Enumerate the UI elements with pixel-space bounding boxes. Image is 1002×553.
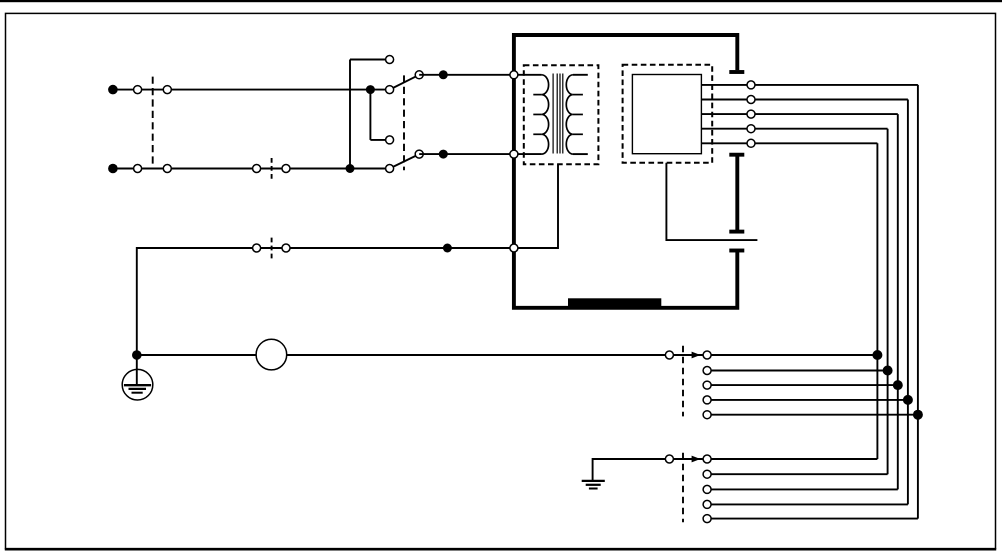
border frame bottom edge: [5, 548, 996, 551]
wire X5 pin 2 to bus 4: [707, 473, 888, 475]
switch S1 common terminal: [415, 71, 423, 79]
wire U1 pin 5: [701, 142, 877, 144]
junction bus1: [913, 410, 923, 420]
wire L1 row 1: [113, 89, 390, 91]
connector X3 separation dashed line: [271, 238, 273, 259]
connector X3 pin a: [253, 244, 261, 252]
signal ground bar 3: [589, 488, 598, 490]
wire X4 pin 2 to bus 4: [707, 370, 888, 372]
splice node on row 3: [443, 244, 452, 253]
wire bus vertical 4: [887, 129, 889, 475]
connector X2 pin a: [253, 165, 261, 173]
wire S2 common to enclosure pin 2: [419, 153, 514, 155]
ganged switch dashed link S1-S2: [403, 75, 405, 170]
terminal circle pin 5: [747, 139, 755, 147]
enclosure pin 2: [510, 150, 518, 158]
transformer T1 primary stub bottom: [514, 153, 542, 155]
connector X4 socket pin 2: [703, 367, 711, 375]
protective earth circle: [122, 369, 153, 400]
connector X1 pin 2a: [134, 165, 142, 173]
wire row 4 supply line: [137, 354, 878, 356]
switch S2 blade: [390, 154, 420, 168]
terminal circle pin 2: [747, 96, 755, 104]
connector X1 pin 1a: [134, 86, 142, 94]
connector X1 pin 2b: [163, 165, 171, 173]
wire U1 pin 1: [701, 84, 918, 86]
switch S1 blade: [390, 75, 420, 90]
node L2 start: [108, 164, 118, 174]
enclosure pin 3: [510, 244, 518, 252]
wire stub to switch S1 lower throw: [370, 139, 389, 141]
connector X5 socket pin 1: [703, 455, 711, 463]
transformer T1 secondary stub top: [573, 74, 588, 76]
junction bus3: [893, 380, 903, 390]
enclosure wall flange bar 2: [729, 153, 744, 157]
signal ground bar 2: [586, 484, 601, 486]
connector X4 arrow head: [692, 352, 701, 359]
connector X4 socket pin 3: [703, 381, 711, 389]
wire bus vertical 3: [897, 114, 899, 489]
wire X4 pin 3 to bus 3: [707, 384, 898, 386]
switch S2 common terminal: [415, 150, 423, 158]
junction bus2: [903, 395, 913, 405]
switch S1 moving contact: [386, 86, 394, 94]
transformer T1 dashed module box: [524, 65, 599, 164]
wire X5 pin 1 to bus 5: [707, 458, 877, 460]
wire X5 pin 5 to bus 1: [707, 518, 918, 520]
enclosure pin 1: [510, 71, 518, 79]
wire bus vertical 2: [907, 100, 909, 505]
terminal circle pin 3: [747, 110, 755, 118]
connector X4 socket pin 4: [703, 396, 711, 404]
indicator lamp M1: [256, 339, 287, 370]
connector X4 socket pin 5: [703, 411, 711, 419]
protective earth bar 1: [124, 384, 151, 386]
junction row1 / lower throw branch: [366, 85, 375, 94]
wire X5 pin 4 to bus 2: [707, 503, 908, 505]
regulator module U1 dashed box: [623, 65, 713, 163]
wire branch down from row1 junction: [369, 90, 371, 140]
wire U1 pin 3: [701, 113, 897, 115]
wire vertical link row2 to upper throw: [349, 60, 351, 169]
wire L2 row 2: [113, 168, 390, 170]
wire X4 pin 4 to bus 2: [707, 399, 908, 401]
transformer T1 secondary winding: [566, 75, 583, 154]
signal ground bar 1: [582, 480, 605, 482]
junction row4 / left riser: [132, 350, 142, 360]
transformer T1 primary stub: [514, 74, 542, 76]
transformer T1 core: [553, 74, 563, 154]
transformer T1 primary winding: [533, 75, 548, 154]
enclosure wall flange bar 1: [729, 70, 744, 74]
connector X4 socket pin 1: [703, 351, 711, 359]
protective earth bar 2: [129, 388, 147, 390]
splice node on wire to pin 1: [439, 70, 448, 79]
terminal circle pin 4: [747, 125, 755, 133]
junction bus5 / row 4: [872, 350, 882, 360]
connector X2 pin b: [282, 165, 290, 173]
wire T1 module to enclosure pin 3: [514, 164, 558, 248]
wire L3 row 3: [137, 248, 514, 355]
junction bus4: [883, 366, 893, 376]
connector X5 socket pin 3: [703, 485, 711, 493]
protective earth bar 3: [132, 392, 143, 394]
switch S2 moving contact: [386, 165, 394, 173]
connector X5 pin left: [665, 455, 673, 463]
transformer T1 secondary stub bottom: [573, 153, 588, 155]
node L1 start: [108, 85, 118, 95]
connector X5 socket pin 5: [703, 515, 711, 523]
switch S1 lower throw contact: [386, 136, 394, 144]
signal ground symbol stem: [593, 459, 670, 480]
connector X3 pin b: [282, 244, 290, 252]
wire S1 common to enclosure pin 1: [419, 74, 514, 76]
connector X1 separation dashed line: [152, 77, 154, 166]
regulator U1 body: [632, 75, 701, 154]
connector X4 separation dashed line: [682, 346, 684, 417]
enclosure bottom mounting bar: [568, 298, 661, 307]
wire U1 pin 4: [701, 128, 887, 130]
wire bus vertical 1: [917, 85, 919, 519]
enclosure wall flange bar 3: [729, 230, 744, 234]
wire X4 pin 5 to bus 1: [707, 414, 918, 416]
wire X5 pin 3 to bus 3: [707, 488, 898, 490]
wire from switch S1 pole to vertical link: [350, 59, 390, 61]
connector X2 separation dashed line: [271, 158, 273, 179]
splice node on wire to pin 2: [439, 150, 448, 159]
protective earth stem: [136, 355, 138, 385]
wire U1 module to capacitor plate: [666, 163, 757, 240]
connector X1 pin 1b: [163, 86, 171, 94]
wire ground to connector X5: [669, 458, 707, 460]
connector X5 socket pin 2: [703, 470, 711, 478]
junction row2 / vertical link: [346, 164, 355, 173]
connector X5 arrow head: [692, 456, 701, 463]
page top rule: [0, 0, 1002, 2]
enclosure chassis outline (control unit box): [514, 35, 737, 308]
connector X4 pin left: [665, 351, 673, 359]
connector X5 separation dashed line: [682, 453, 684, 523]
wire U1 pin 2: [701, 99, 908, 101]
terminal circle pin 1: [747, 81, 755, 89]
switch S1 upper throw contact: [386, 56, 394, 64]
enclosure wall flange bar 4: [729, 249, 744, 253]
enclosure wall middle segment: [735, 155, 739, 232]
wire bus vertical 5: [876, 143, 878, 459]
connector X5 socket pin 4: [703, 500, 711, 508]
